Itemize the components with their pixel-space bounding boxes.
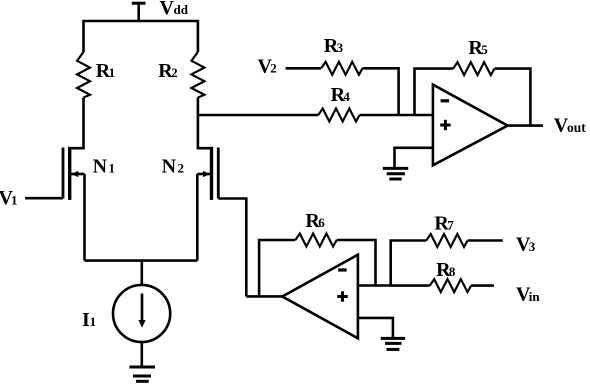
ground at U1 <box>383 168 408 179</box>
svg-text:out: out <box>567 120 586 135</box>
wire R1 to N1 drain <box>70 98 84 149</box>
label V1 <box>0 187 18 209</box>
svg-text:3: 3 <box>529 239 536 254</box>
op-amp U2 <box>282 255 358 339</box>
transistor N1 <box>63 147 85 200</box>
wire R8 to Vin <box>471 284 494 287</box>
resistor R1 <box>77 52 90 98</box>
U2 minus pin glyph <box>338 268 346 271</box>
resistor R3 <box>321 62 362 75</box>
svg-text:N: N <box>93 156 108 178</box>
wire R5 left leg <box>415 69 454 115</box>
wire ground to U1 non-inverting input <box>395 148 433 168</box>
label R1 <box>96 60 115 82</box>
U2 plus pin glyph <box>337 291 347 301</box>
label R2 <box>158 60 177 82</box>
resistor R7 <box>426 234 467 247</box>
label V3 <box>516 234 536 256</box>
svg-text:1: 1 <box>109 65 116 80</box>
resistor R5 <box>453 62 494 75</box>
wire U2 output <box>246 295 282 298</box>
resistor R6 <box>295 234 336 247</box>
label R4 <box>331 84 351 106</box>
label I1 <box>82 309 96 331</box>
label N2 <box>162 156 184 178</box>
svg-text:4: 4 <box>343 89 350 104</box>
wire U2 inverting input <box>358 284 391 287</box>
wire V1 to N1 gate <box>25 197 63 200</box>
wire R6 left leg from U2 output <box>259 240 295 296</box>
label R3 <box>324 35 344 57</box>
svg-text:1: 1 <box>90 314 97 329</box>
wire N2 source down <box>196 174 199 261</box>
wire R2 to N2 drain <box>198 98 212 149</box>
U1 minus pin glyph <box>441 99 449 102</box>
label R7 <box>434 213 454 235</box>
wire Vdd rail <box>84 21 198 52</box>
wire R4 to U1 inverting input <box>360 114 433 117</box>
node between R2 and N2 to R4 wire <box>198 114 318 117</box>
resistor R4 <box>318 109 359 122</box>
svg-text:5: 5 <box>481 42 488 57</box>
resistor R2 <box>191 52 204 98</box>
svg-text:dd: dd <box>174 2 189 17</box>
resistor R8 <box>430 279 471 292</box>
svg-text:1: 1 <box>109 161 116 176</box>
wire I1 to ground <box>141 342 144 367</box>
transistor N2 <box>197 147 218 200</box>
svg-text:7: 7 <box>447 218 454 233</box>
label N1 <box>93 156 115 178</box>
wire rail to I1 <box>141 261 144 286</box>
ground below I1 <box>130 367 156 381</box>
U1 plus pin glyph <box>440 120 450 130</box>
svg-text:2: 2 <box>270 61 277 76</box>
svg-text:N: N <box>162 156 177 178</box>
svg-text:2: 2 <box>171 65 178 80</box>
wire common source rail <box>85 259 198 262</box>
label V2 <box>258 55 277 77</box>
svg-text:2: 2 <box>178 161 185 176</box>
label R8 <box>436 259 456 281</box>
wire R6 right leg to U2 inverting input <box>337 240 376 286</box>
wire R3 down to inverting node <box>363 68 399 115</box>
wire V2 to R3 <box>286 67 322 70</box>
label Vout <box>554 115 586 137</box>
label R6 <box>305 210 325 232</box>
svg-text:6: 6 <box>318 215 325 230</box>
wire R5 right leg to U1 output <box>494 69 530 126</box>
svg-text:8: 8 <box>449 264 456 279</box>
label Vin <box>516 284 540 306</box>
op-amp U1 <box>433 85 508 166</box>
wire junction to R8 <box>391 284 430 287</box>
svg-text:3: 3 <box>337 40 344 55</box>
label Vdd <box>160 0 189 19</box>
wire U1 output <box>508 124 543 127</box>
wire ground to U2 non-inverting input <box>358 318 393 338</box>
svg-text:1: 1 <box>11 192 18 207</box>
label R5 <box>468 37 488 59</box>
wire N1 source down <box>83 174 86 261</box>
wire N2 gate to op-amp U2 output <box>218 199 246 297</box>
ground at U2 <box>381 338 405 349</box>
Vdd supply bar <box>132 3 146 21</box>
svg-text:in: in <box>529 289 541 304</box>
wire R7 to V3 <box>468 239 503 242</box>
current source I1 <box>113 285 170 342</box>
svg-text:V: V <box>160 0 175 19</box>
wire junction up to R7 <box>391 241 427 286</box>
